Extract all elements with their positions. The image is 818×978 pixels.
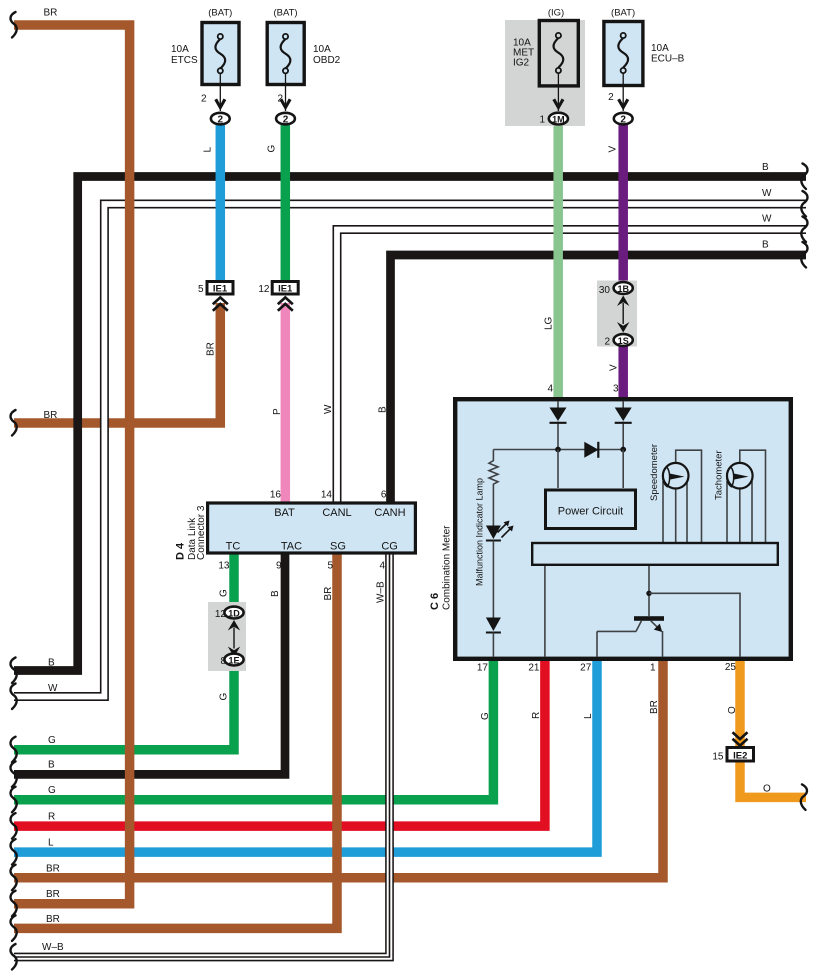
svg-text:2: 2	[201, 94, 207, 105]
MIL branch lower diode	[492, 541, 494, 618]
svg-text:Combination Meter: Combination Meter	[442, 525, 453, 610]
svg-text:D 4: D 4	[175, 542, 187, 560]
svg-text:TAC: TAC	[281, 541, 302, 553]
wire L: meter pin 27 to left edge	[14, 655, 597, 852]
svg-text:G: G	[48, 735, 56, 746]
svg-text:5: 5	[198, 284, 204, 295]
right edge squiggles	[801, 164, 807, 190]
svg-text:G: G	[219, 589, 230, 597]
svg-text:27: 27	[580, 663, 592, 674]
svg-text:IE1: IE1	[213, 284, 228, 295]
connector IE1 no.12	[258, 282, 298, 311]
svg-text:2: 2	[620, 115, 626, 126]
collector line from bar with junction	[648, 566, 650, 616]
svg-text:10A: 10A	[171, 44, 189, 55]
wire G: D4 TC pin 13 through 1D/1E to left edge	[14, 553, 234, 750]
fuse 10A ETCS	[171, 8, 239, 126]
svg-text:B: B	[48, 658, 55, 669]
svg-text:B: B	[762, 162, 769, 173]
svg-text:1: 1	[650, 663, 656, 674]
connector 1D/1E ovals and arrows	[215, 607, 244, 667]
svg-text:TC: TC	[226, 541, 241, 553]
svg-text:CANL: CANL	[322, 507, 351, 519]
svg-text:BAT: BAT	[274, 507, 295, 519]
connector IE2	[712, 732, 753, 762]
svg-text:B: B	[762, 240, 769, 251]
svg-text:(IG): (IG)	[548, 8, 564, 19]
tachometer wires	[727, 450, 766, 542]
svg-text:B: B	[270, 590, 281, 597]
wire-continuation squiggle at 12,826.1	[11, 813, 17, 839]
svg-text:BR: BR	[44, 410, 58, 421]
svg-text:1: 1	[539, 115, 545, 126]
svg-text:LG: LG	[544, 316, 555, 330]
wire-continuation squiggle at 806,229.5	[801, 217, 807, 243]
wire O: meter pin 25 to IE2	[735, 655, 745, 747]
wire W bus: right squiggle, corner x104.4, down, bottom-left	[14, 204, 806, 697]
transistor	[597, 616, 664, 657]
svg-text:Tachometer: Tachometer	[714, 450, 725, 500]
svg-text:16: 16	[270, 490, 282, 501]
svg-text:2: 2	[277, 94, 283, 105]
svg-text:G: G	[267, 145, 278, 153]
wire L (blue): fuse ETCS to IE1 pin 5	[216, 124, 226, 281]
connector 1B/1S ovals and arrows	[599, 282, 633, 347]
fuse 10A MET IG2	[513, 8, 578, 126]
line bar to pin 21	[544, 566, 546, 657]
svg-text:P: P	[272, 408, 283, 415]
svg-text:5: 5	[327, 561, 333, 572]
svg-text:IG2: IG2	[513, 58, 530, 69]
svg-text:1S: 1S	[618, 336, 629, 346]
speedometer wires	[663, 450, 702, 542]
svg-text:W–B: W–B	[42, 942, 64, 953]
svg-text:W: W	[762, 214, 772, 225]
svg-text:BR: BR	[46, 864, 60, 875]
svg-text:1E: 1E	[228, 655, 239, 665]
svg-text:6: 6	[381, 490, 387, 501]
svg-text:V: V	[608, 146, 619, 153]
svg-text:BR: BR	[46, 914, 60, 925]
wire LG: fuse MET IG2 to meter pin 4	[553, 124, 563, 400]
lines into power circuit	[557, 450, 559, 489]
svg-text:8: 8	[220, 656, 226, 667]
line junction to pin 25	[649, 593, 740, 657]
svg-text:IE1: IE1	[278, 284, 293, 295]
fuse block gray background (MET IG2)	[505, 20, 585, 126]
speedometer gauge	[663, 463, 689, 489]
meter internal: diode at pin 4	[557, 401, 559, 450]
wire-continuation squiggle at 806,255	[801, 242, 807, 268]
D4 Data Link Connector 3 box	[208, 503, 416, 553]
wire B: D4 TAC pin 9 to left edge	[14, 553, 285, 774]
svg-text:3: 3	[613, 384, 619, 395]
svg-text:BR: BR	[206, 342, 217, 356]
svg-text:G: G	[480, 712, 491, 720]
svg-text:12: 12	[215, 609, 227, 620]
svg-text:4: 4	[547, 384, 553, 395]
svg-text:R: R	[531, 712, 542, 719]
svg-text:9: 9	[276, 561, 282, 572]
wire BR: meter pin 1 to left edge	[14, 655, 663, 878]
svg-text:BR: BR	[323, 587, 334, 601]
wire V: fuse ECU-B to 1B connector	[618, 124, 628, 282]
wire-continuation squiggle at 12,877.7	[11, 865, 17, 891]
svg-text:2: 2	[608, 92, 614, 103]
wire BR main: top-left squiggle, down x129.6, bottom-left	[14, 25, 130, 904]
wire-continuation squiggle at 12,696.5	[11, 684, 17, 710]
svg-text:25: 25	[725, 662, 737, 673]
tachometer gauge	[727, 463, 753, 489]
svg-text:14: 14	[321, 490, 333, 501]
svg-text:OBD2: OBD2	[313, 55, 341, 66]
wire V: 1S connector to meter pin 3	[618, 347, 628, 401]
wire-continuation squiggle at 12,670.5	[11, 658, 17, 684]
svg-text:2: 2	[283, 115, 289, 126]
wire-continuation squiggle at 806,204	[801, 191, 807, 217]
svg-text:(BAT): (BAT)	[273, 8, 297, 19]
connector 1D/1E gray background	[208, 602, 246, 671]
svg-text:ETCS: ETCS	[171, 55, 198, 66]
wire-continuation squiggle at 805.5,797.4	[801, 784, 807, 810]
wire G (green): fuse OBD2 to IE1 pin 12	[281, 124, 291, 281]
wire W-B: D4 CG pin 4 to left edge	[14, 553, 390, 957]
wire-continuation squiggle at 12,749.7	[11, 737, 17, 763]
power circuit box	[546, 490, 636, 529]
junction dot pin4 branch	[555, 447, 561, 453]
wire B CANH: right bus line to D4 pin 6	[391, 255, 807, 503]
combination meter C6 box	[455, 399, 791, 659]
connector 1B/1S gray background	[597, 281, 637, 347]
svg-text:1B: 1B	[617, 284, 629, 294]
svg-text:L: L	[583, 713, 594, 719]
wire-continuation squiggle at 12,957	[11, 944, 17, 970]
fuse 10A ECU-B	[604, 8, 685, 126]
MIL branch: resistor	[489, 450, 498, 526]
svg-text:W: W	[762, 188, 772, 199]
meter internal bus bar	[532, 543, 778, 565]
svg-text:ECU–B: ECU–B	[651, 54, 685, 65]
svg-text:Malfunction Indicator Lamp: Malfunction Indicator Lamp	[475, 478, 485, 586]
svg-text:15: 15	[712, 752, 724, 763]
svg-text:CG: CG	[381, 541, 398, 553]
wire-continuation squiggle at 12,903.7	[11, 891, 17, 917]
MIL LED	[486, 526, 501, 540]
left edge squiggles	[11, 12, 17, 38]
svg-text:W: W	[323, 404, 334, 414]
svg-text:17: 17	[477, 663, 489, 674]
svg-text:(BAT): (BAT)	[208, 8, 232, 19]
junction dot pin3 branch	[620, 447, 626, 453]
svg-text:1D: 1D	[228, 608, 240, 618]
wire W CANL: right bus line to D4 pin 14	[337, 230, 806, 504]
wire BR: D4 SG pin 5 to left edge	[14, 553, 337, 928]
wire P (pink): IE1 pin 12 to D4 pin 16 BAT	[281, 303, 291, 503]
wire BR: mid-left squiggle to IE1 no.5	[14, 303, 220, 423]
svg-text:SG: SG	[330, 541, 346, 553]
svg-text:Power Circuit: Power Circuit	[558, 506, 623, 518]
wire R: meter pin 21 to left edge	[14, 655, 545, 826]
svg-text:30: 30	[599, 285, 611, 296]
svg-text:10A: 10A	[313, 44, 331, 55]
svg-text:G: G	[219, 693, 230, 701]
meter internal: node line with series diode	[493, 449, 623, 451]
svg-text:C 6: C 6	[429, 593, 441, 610]
svg-text:2: 2	[218, 115, 224, 126]
svg-text:BR: BR	[46, 889, 60, 900]
svg-text:W–B: W–B	[376, 581, 387, 603]
connector IE1 no.5	[198, 282, 233, 311]
wire B ground bus top: right squiggle, corner x77.7, down, bottom-left	[14, 177, 806, 671]
wire G: meter pin 17 to left edge	[14, 655, 493, 800]
svg-text:O: O	[763, 784, 771, 795]
svg-text:4: 4	[379, 561, 385, 572]
svg-text:1M: 1M	[552, 114, 565, 124]
wire O: IE2 to right squiggle	[740, 762, 806, 797]
svg-text:Speedometer: Speedometer	[649, 444, 660, 501]
svg-text:L: L	[203, 147, 214, 153]
svg-text:G: G	[48, 785, 56, 796]
svg-text:IE2: IE2	[733, 751, 747, 762]
wire-continuation squiggle at 12,774.4	[11, 761, 17, 787]
wire-continuation squiggle at 12,799.7	[11, 787, 17, 813]
svg-text:13: 13	[218, 561, 230, 572]
svg-text:(BAT): (BAT)	[611, 8, 635, 19]
svg-text:10A: 10A	[651, 43, 669, 54]
svg-text:W: W	[48, 683, 58, 694]
wire-continuation squiggle at 12,852.1	[11, 839, 17, 865]
svg-text:Connector 3: Connector 3	[196, 505, 207, 560]
svg-text:21: 21	[528, 663, 540, 674]
meter internal: diode at pin 3	[622, 401, 624, 450]
svg-text:O: O	[727, 706, 738, 714]
wire-continuation squiggle at 12,928.4	[11, 915, 17, 941]
svg-text:V: V	[609, 364, 620, 371]
fuse 10A OBD2	[267, 8, 340, 126]
svg-text:B: B	[378, 406, 389, 413]
svg-text:CANH: CANH	[374, 507, 405, 519]
svg-text:R: R	[48, 812, 55, 823]
svg-text:BR: BR	[649, 700, 660, 714]
svg-text:L: L	[48, 838, 54, 849]
svg-text:BR: BR	[44, 8, 58, 19]
svg-text:B: B	[48, 760, 55, 771]
svg-text:2: 2	[604, 337, 610, 348]
svg-text:12: 12	[258, 284, 270, 295]
wire-continuation squiggle at 12,423	[11, 410, 17, 436]
